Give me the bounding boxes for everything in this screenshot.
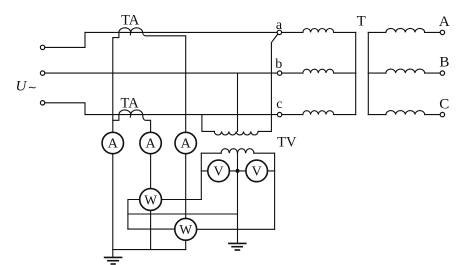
terminal t1 (phase a input): [40, 45, 44, 49]
wire bottom bus: [113, 249, 186, 251]
svg-text:A: A: [146, 137, 157, 152]
wattmeter W1: [140, 189, 162, 211]
TV secondary top-left lead: [201, 152, 221, 154]
TV secondary centre vertical to ground: [237, 153, 239, 243]
voltage transformer TV primary: left lead from c-line: [202, 115, 214, 132]
terminal t2 (phase b input): [40, 71, 44, 75]
TA1 secondary left tap: [113, 32, 119, 132]
label U~ source: [16, 79, 37, 95]
wire c-line left: [85, 114, 278, 116]
TV primary coil (6 scallops down): [214, 131, 258, 135]
TV secondary coil (4 scallops up): [221, 149, 254, 154]
wire common to TV centre (y=214): [128, 213, 238, 215]
wire a-line left: [85, 31, 277, 33]
TA1 secondary right tap: [143, 32, 186, 132]
svg-text:b: b: [275, 57, 282, 72]
ammeter A2: [140, 132, 161, 153]
svg-text:TA: TA: [121, 12, 140, 28]
svg-text:a: a: [276, 18, 283, 33]
TA2 secondary right tap: [143, 115, 151, 133]
TV secondary left vertical: [200, 153, 202, 199]
T secondary winding B: [368, 72, 386, 74]
voltmeter row wires: [201, 170, 274, 172]
ground (left): [105, 257, 122, 264]
T secondary bus: [367, 32, 369, 114]
svg-text:TA: TA: [121, 96, 140, 112]
terminal C: [440, 112, 444, 116]
voltmeter V2: [246, 160, 268, 182]
svg-text:A: A: [181, 137, 192, 152]
wire t3 to c-line: [45, 103, 85, 115]
wire A2 down to W1: [150, 154, 152, 189]
ammeter A3: [175, 132, 196, 153]
wire W1-left to W2-left (y=229): [128, 228, 175, 230]
wire t1 to a-line: [45, 32, 85, 47]
T primary winding a: [282, 31, 303, 33]
T primary winding c: [282, 114, 303, 116]
svg-text:W: W: [144, 192, 157, 207]
TA2 secondary left tap: [113, 115, 119, 121]
ground (right): [229, 243, 246, 250]
svg-text:V: V: [252, 165, 262, 180]
terminal t3 (phase c input): [40, 101, 44, 105]
TV secondary right vertical: [274, 153, 276, 229]
T primary winding b: [282, 72, 303, 74]
wire W2 right to TV right vertical: [197, 228, 275, 230]
wattmeter W2: [175, 218, 197, 240]
ammeter A1: [102, 132, 123, 153]
TV primary centre tap from b-line: [237, 73, 239, 131]
wire W2 bottom: [185, 240, 187, 249]
wire W1 right to TV left vertical: [162, 199, 202, 201]
voltmeter V1: [208, 160, 230, 182]
svg-text:W: W: [179, 222, 192, 237]
node b terminal: [277, 71, 281, 75]
svg-text:C: C: [439, 96, 449, 112]
junction dot: [236, 169, 240, 173]
svg-text:A: A: [108, 137, 119, 152]
terminal B: [440, 71, 444, 75]
svg-text:V: V: [214, 165, 224, 180]
terminal A: [440, 30, 444, 34]
svg-text:T: T: [357, 13, 366, 29]
wire A3 down to W2: [185, 154, 187, 219]
svg-text:U: U: [16, 79, 28, 95]
T primary bus: [355, 32, 357, 114]
svg-text:A: A: [439, 14, 450, 30]
svg-text:B: B: [439, 55, 449, 71]
wire A1 down to ground: [112, 154, 114, 257]
T secondary winding C: [368, 114, 386, 116]
TV primary right lead up to node a: [258, 34, 278, 131]
T secondary winding A: [368, 31, 386, 33]
wire b-line: [45, 72, 278, 74]
node c terminal: [277, 112, 281, 116]
wire W1 left step: [128, 200, 140, 230]
current transformer TA2 coil: [119, 110, 143, 117]
svg-text:∼: ∼: [28, 82, 37, 94]
svg-text:TV: TV: [277, 134, 297, 150]
wire W1 bottom: [150, 211, 152, 250]
node a terminal: [277, 30, 281, 34]
svg-text:c: c: [276, 97, 282, 112]
current transformer TA1 coil: [119, 28, 143, 35]
TV secondary top-right lead: [254, 152, 275, 154]
